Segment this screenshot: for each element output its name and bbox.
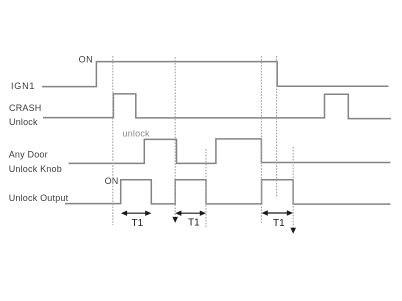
arrow T1 measure 1 <box>121 211 151 216</box>
svg-text:CRASH: CRASH <box>9 103 42 113</box>
svg-text:T1: T1 <box>132 218 144 229</box>
svg-text:T1: T1 <box>188 217 200 228</box>
wire Any Door Unlock Knob waveform <box>69 139 391 164</box>
svg-text:Unlock Knob: Unlock Knob <box>9 164 62 174</box>
node dashed line t2 (knob2 release / output3 start) <box>260 56 262 224</box>
arrow T1 measure 3 <box>262 210 293 215</box>
wire IGN1 waveform <box>42 62 389 87</box>
svg-text:ON: ON <box>79 55 94 65</box>
arrow down at t1 <box>172 217 178 223</box>
node dashed line output2 end <box>205 149 207 228</box>
svg-text:Unlock Output: Unlock Output <box>9 193 69 203</box>
svg-text:IGN1: IGN1 <box>11 81 35 91</box>
svg-text:ON: ON <box>105 176 119 186</box>
svg-text:T1: T1 <box>273 218 285 229</box>
node dashed line t1 (knob release / output2 start) <box>174 57 176 217</box>
node dashed line output3 end <box>292 147 294 229</box>
svg-text:unlock: unlock <box>123 129 151 139</box>
node dashed line IGN1 fall <box>276 56 278 198</box>
svg-text:Any Door: Any Door <box>9 149 48 159</box>
svg-text:Unlock: Unlock <box>9 117 38 127</box>
node dashed line t0 (CRASH rise) <box>112 56 114 225</box>
wire Unlock Output waveform <box>65 180 391 204</box>
wire CRASH Unlock waveform <box>43 94 391 119</box>
arrow down at output3 end <box>290 228 296 234</box>
arrow T1 measure 2 <box>175 211 206 216</box>
